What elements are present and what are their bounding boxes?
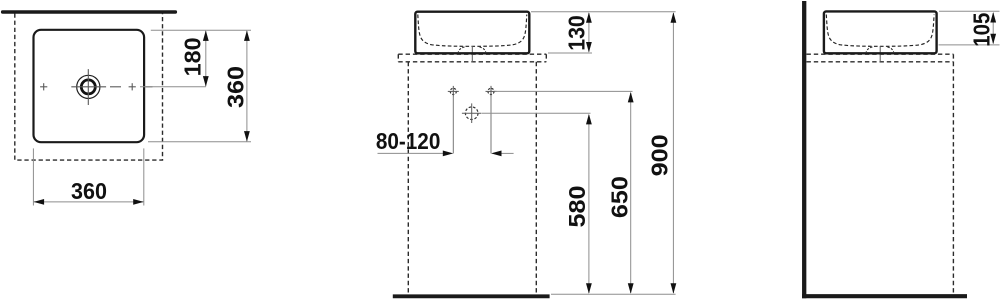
svg-text:650: 650 [606,176,632,218]
svg-text:80-120: 80-120 [376,128,441,154]
svg-text:180: 180 [179,37,205,76]
svg-text:130: 130 [563,15,589,51]
svg-text:580: 580 [564,186,590,228]
svg-text:360: 360 [71,178,107,204]
svg-text:360: 360 [222,66,248,108]
svg-text:900: 900 [646,134,672,176]
svg-text:105: 105 [969,13,995,47]
